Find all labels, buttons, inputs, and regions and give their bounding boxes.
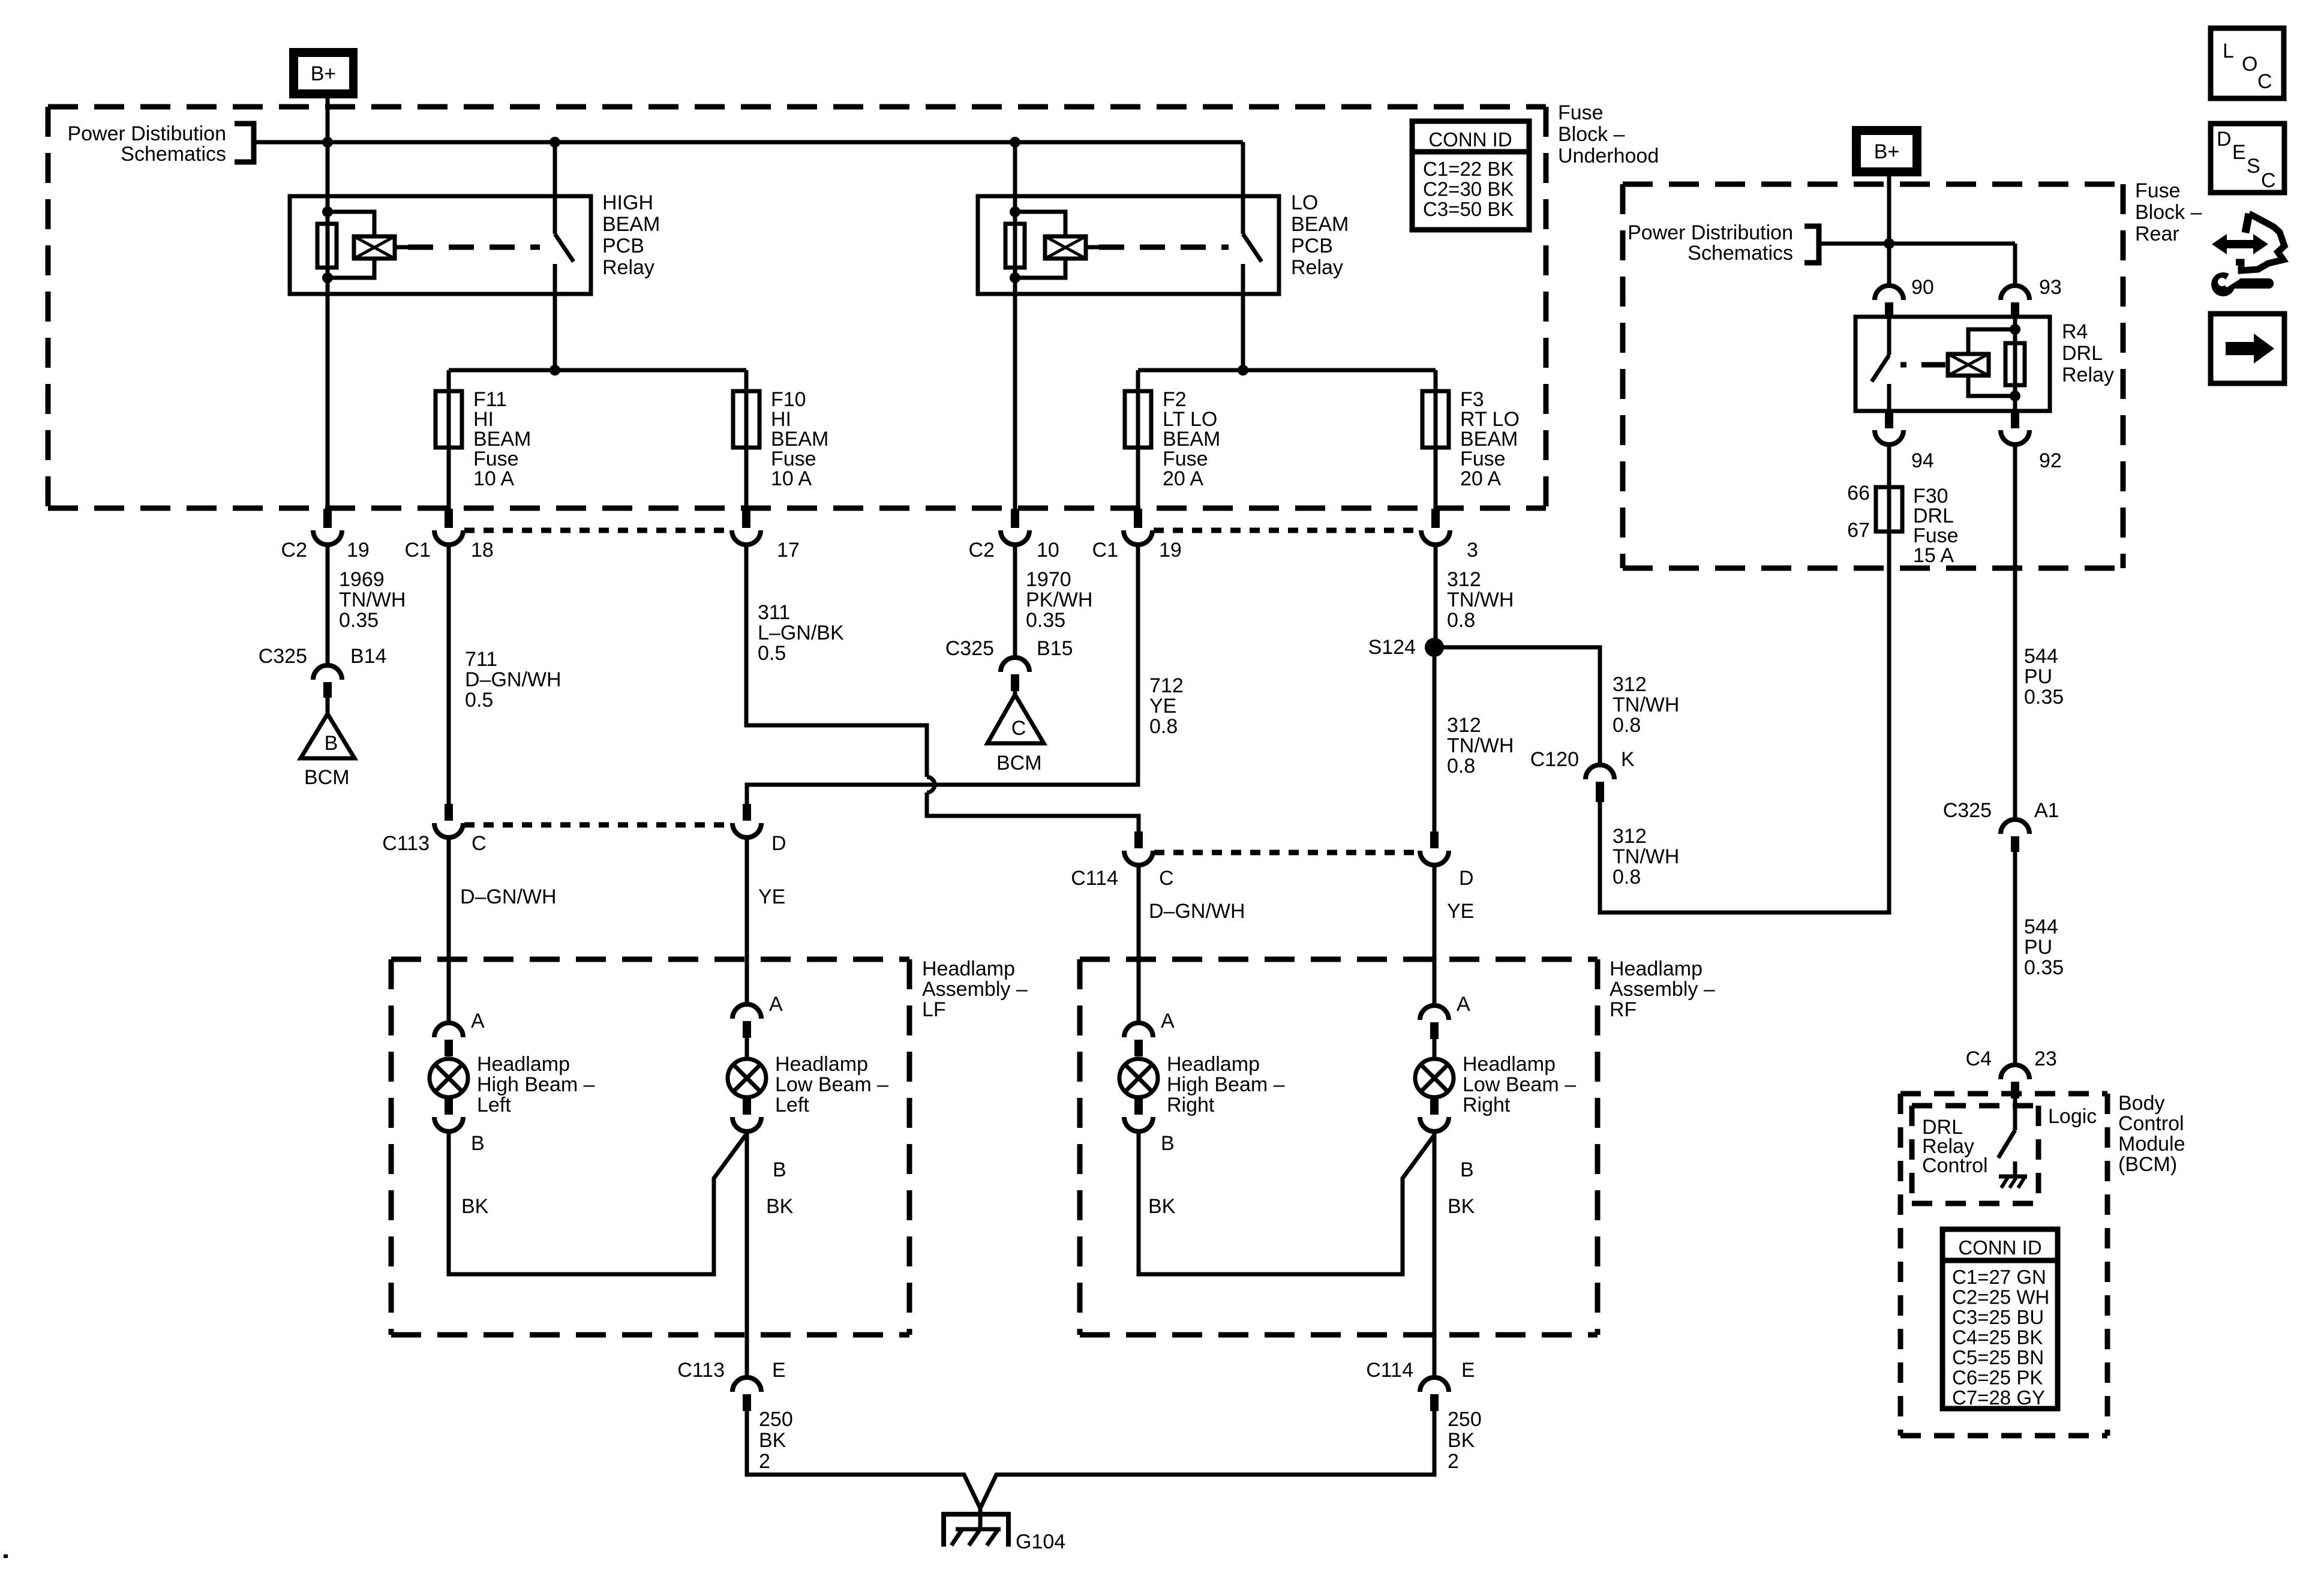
icon DESC box bbox=[2211, 124, 2284, 193]
icon LOC box bbox=[2211, 28, 2284, 98]
svg-text:20 A: 20 A bbox=[1460, 467, 1501, 490]
connector bridge dotted C113 C-D bbox=[464, 822, 732, 828]
svg-text:C114: C114 bbox=[1366, 1359, 1413, 1382]
svg-text:0.5: 0.5 bbox=[465, 689, 493, 712]
svg-text:1970: 1970 bbox=[1026, 568, 1071, 591]
wire through F11 bbox=[447, 391, 451, 448]
svg-text:D–GN/WH: D–GN/WH bbox=[460, 885, 557, 908]
svg-text:92: 92 bbox=[2039, 449, 2062, 472]
svg-text:A1: A1 bbox=[2034, 799, 2059, 822]
wire through F30 bbox=[1887, 487, 1891, 532]
svg-text:Relay: Relay bbox=[602, 256, 654, 279]
wire drop to F2 bbox=[1136, 370, 1140, 391]
wire HIGH relay switch to fuse bus bbox=[553, 264, 557, 370]
svg-text:YE: YE bbox=[1447, 900, 1474, 923]
connector lamp B low beam left bbox=[743, 1097, 751, 1115]
svg-text:C325: C325 bbox=[259, 645, 307, 668]
svg-text:0.5: 0.5 bbox=[758, 642, 786, 665]
svg-text:B: B bbox=[773, 1158, 786, 1181]
svg-text:A: A bbox=[471, 1010, 485, 1032]
svg-text:TN/WH: TN/WH bbox=[1447, 734, 1514, 757]
svg-text:0.8: 0.8 bbox=[1447, 609, 1475, 632]
node fuse bus LO junction bbox=[1238, 365, 1248, 376]
wire B+ rear down bbox=[1887, 176, 1891, 244]
wire pin 94 to F30 bbox=[1887, 445, 1891, 487]
node HIGH coil bottom bbox=[322, 272, 333, 283]
connector C325 B14 bbox=[313, 665, 342, 680]
body control module dashed enclosure bbox=[1900, 1091, 2107, 1097]
svg-text:TN/WH: TN/WH bbox=[1613, 694, 1679, 716]
relay HIGH switch bbox=[553, 196, 557, 234]
page corner mark bbox=[4, 1554, 8, 1558]
svg-text:C325: C325 bbox=[1943, 799, 1992, 822]
svg-text:C6=25 PK: C6=25 PK bbox=[1952, 1367, 2043, 1389]
svg-text:Power Distribution: Power Distribution bbox=[1628, 221, 1793, 244]
svg-text:A: A bbox=[1161, 1010, 1175, 1032]
svg-text:BK: BK bbox=[1448, 1195, 1475, 1218]
svg-text:C113: C113 bbox=[382, 832, 430, 855]
connector C1 pin 18 at fuse block bbox=[445, 509, 453, 528]
BCM internal ground symbol bbox=[1999, 1175, 2027, 1179]
DRL relay control dashed enclosure bbox=[1912, 1103, 2038, 1109]
svg-text:A: A bbox=[1457, 993, 1470, 1016]
svg-text:Relay: Relay bbox=[1291, 256, 1343, 279]
svg-text:TN/WH: TN/WH bbox=[1613, 845, 1679, 868]
svg-text:C2: C2 bbox=[281, 539, 307, 562]
wire fuse bus HIGH bbox=[449, 368, 746, 373]
connector pin 17 at fuse block bbox=[742, 509, 750, 528]
svg-text:10 A: 10 A bbox=[473, 467, 514, 490]
connector C113 pin C bbox=[445, 804, 453, 821]
wire F2 to C1-19 bbox=[1136, 448, 1140, 509]
wire C325-A1 to C4-23 bbox=[2013, 852, 2017, 1065]
svg-text:R4: R4 bbox=[2062, 320, 2088, 343]
wire C113-E to ground bbox=[747, 1411, 980, 1508]
wire fuse bus LO bbox=[1138, 368, 1436, 373]
svg-text:C2=25 WH: C2=25 WH bbox=[1952, 1286, 2049, 1308]
svg-text:Right: Right bbox=[1167, 1094, 1215, 1116]
wire 1969 TN/WH to C325-B14 bbox=[326, 542, 330, 665]
svg-text:17: 17 bbox=[777, 539, 800, 562]
svg-text:TN/WH: TN/WH bbox=[339, 589, 406, 611]
svg-text:Schematics: Schematics bbox=[121, 143, 226, 166]
wire low beam left to C113-E bbox=[745, 1131, 749, 1377]
fuse block rear dashed enclosure bbox=[1623, 182, 2123, 187]
svg-text:S: S bbox=[2247, 155, 2260, 178]
svg-text:D–GN/WH: D–GN/WH bbox=[465, 668, 562, 691]
svg-text:S124: S124 bbox=[1368, 636, 1416, 659]
node junction rear bus bbox=[1884, 238, 1894, 249]
svg-text:3: 3 bbox=[1467, 539, 1478, 562]
svg-text:544: 544 bbox=[2024, 645, 2058, 668]
svg-text:312: 312 bbox=[1613, 825, 1647, 848]
svg-text:BK: BK bbox=[1448, 1429, 1475, 1452]
svg-text:250: 250 bbox=[1448, 1408, 1482, 1431]
svg-text:B: B bbox=[1460, 1158, 1474, 1181]
wire C120 to F30 fuse run bbox=[1600, 532, 1889, 912]
node HIGH coil top bbox=[322, 206, 333, 217]
wire 1970 PK/WH to C325-B15 bbox=[1013, 542, 1017, 658]
relay R4 control dashed line bbox=[1900, 362, 1945, 368]
svg-text:67: 67 bbox=[1847, 519, 1870, 542]
svg-text:B: B bbox=[471, 1132, 485, 1155]
wire F10 to pin 17 bbox=[744, 448, 749, 509]
connector lamp A low beam right bbox=[1420, 1005, 1449, 1020]
wire power distribution bus rear bbox=[1819, 242, 2015, 246]
svg-text:E: E bbox=[772, 1359, 786, 1382]
wire 711 D-GN/WH F11 to C113-C bbox=[447, 542, 451, 804]
wire F11 to C1-18 bbox=[447, 448, 451, 509]
wire 311 lower run to C114-C bbox=[927, 792, 1139, 831]
wire B+ bus horizontal bbox=[254, 140, 1243, 145]
relay LO solenoid winding symbol bbox=[1045, 236, 1086, 259]
svg-text:B14: B14 bbox=[350, 645, 387, 668]
node R4 coil top bbox=[2010, 324, 2020, 335]
lamp headlamp low beam left bbox=[728, 1059, 766, 1097]
relay LO control dashed line bbox=[1086, 245, 1099, 250]
wire HIGH coil to C2-19 bbox=[326, 278, 330, 509]
svg-text:0.35: 0.35 bbox=[2024, 956, 2064, 979]
connector relay pin 90 bbox=[1875, 286, 1903, 300]
connector C325 A1 bbox=[2001, 819, 2029, 834]
connector relay pin 92 bbox=[2011, 411, 2019, 428]
wire 544 PU from pin 92 to C325-A1 bbox=[2013, 445, 2017, 819]
wire S124 branch to C120 bbox=[1434, 647, 1600, 765]
svg-text:B+: B+ bbox=[1874, 140, 1900, 163]
connector lamp B high beam left bbox=[445, 1097, 453, 1115]
svg-text:Underhood: Underhood bbox=[1558, 145, 1659, 167]
svg-text:LF: LF bbox=[922, 998, 946, 1021]
svg-text:Rear: Rear bbox=[2135, 223, 2179, 245]
svg-text:0.35: 0.35 bbox=[339, 609, 379, 632]
connector relay pin 93 bbox=[2001, 286, 2029, 300]
connector lamp B high beam right bbox=[1134, 1097, 1143, 1115]
svg-text:YE: YE bbox=[1149, 695, 1176, 718]
bracket for power distribution reference (left) bbox=[235, 124, 254, 162]
svg-text:BK: BK bbox=[461, 1195, 489, 1218]
wire B+ down to relay coil bbox=[326, 98, 330, 212]
svg-text:G104: G104 bbox=[1016, 1530, 1065, 1553]
connector lamp B low beam right bbox=[1430, 1097, 1439, 1115]
svg-text:Control: Control bbox=[2118, 1112, 2184, 1135]
svg-text:A: A bbox=[769, 993, 783, 1016]
svg-text:712: 712 bbox=[1149, 674, 1184, 697]
svg-text:LO: LO bbox=[1291, 191, 1318, 214]
svg-text:Left: Left bbox=[477, 1094, 511, 1116]
svg-text:PU: PU bbox=[2024, 936, 2052, 959]
svg-text:10 A: 10 A bbox=[771, 467, 812, 490]
svg-text:PK/WH: PK/WH bbox=[1026, 589, 1092, 611]
fuse F11 HI BEAM Fuse 10A bbox=[436, 391, 462, 448]
relay LO BEAM PCB Relay box bbox=[978, 196, 1279, 294]
relay HIGH control dashed line bbox=[395, 245, 408, 250]
BCM destination triangle C bbox=[987, 695, 1044, 743]
svg-text:C1: C1 bbox=[1092, 539, 1118, 562]
wire S124 down to C114-D bbox=[1433, 647, 1437, 831]
connector lamp A high beam left bbox=[434, 1023, 463, 1037]
svg-text:C3=25 BU: C3=25 BU bbox=[1952, 1306, 2044, 1328]
connector relay pin 94 bbox=[1885, 411, 1893, 428]
svg-text:C2: C2 bbox=[969, 539, 995, 562]
svg-text:Headlamp: Headlamp bbox=[775, 1053, 868, 1076]
svg-text:C4: C4 bbox=[1966, 1047, 1992, 1070]
svg-text:66: 66 bbox=[1847, 482, 1870, 505]
svg-text:C114: C114 bbox=[1071, 867, 1118, 890]
relay R4 coil resistor bbox=[2005, 343, 2025, 385]
wire bus corner down to LO relay switch bbox=[1241, 142, 1245, 196]
wire through F10 bbox=[744, 391, 749, 448]
svg-text:Headlamp: Headlamp bbox=[922, 957, 1015, 980]
svg-text:Logic: Logic bbox=[2048, 1105, 2097, 1128]
wire HIGH coil loop bbox=[328, 212, 374, 236]
relay LO switch bbox=[1241, 196, 1245, 234]
svg-text:L–GN/BK: L–GN/BK bbox=[758, 622, 844, 644]
svg-text:312: 312 bbox=[1447, 568, 1481, 591]
wire C114-D to low beam right lamp bbox=[1433, 866, 1437, 1005]
svg-text:Low Beam –: Low Beam – bbox=[1463, 1073, 1576, 1096]
svg-text:18: 18 bbox=[471, 539, 494, 562]
wire hop over YE wire bbox=[927, 777, 935, 792]
svg-text:Relay: Relay bbox=[2062, 364, 2114, 386]
svg-text:1969: 1969 bbox=[339, 568, 385, 591]
svg-text:High Beam –: High Beam – bbox=[477, 1073, 595, 1096]
wire B+ to pin 90 bbox=[1887, 244, 1891, 286]
B+ power symbol (left) bbox=[289, 48, 358, 98]
wire R4 coil loop bbox=[1968, 329, 2015, 354]
wire C114-C to high beam right lamp bbox=[1137, 866, 1141, 1023]
wire through HIGH coil bbox=[326, 212, 330, 278]
svg-text:Fuse: Fuse bbox=[1558, 101, 1604, 124]
svg-text:BCM: BCM bbox=[996, 752, 1042, 775]
svg-text:250: 250 bbox=[759, 1408, 793, 1431]
connector lamp A low beam left bbox=[732, 1004, 761, 1019]
svg-text:Block –: Block – bbox=[1558, 123, 1625, 146]
fuse F10 HI BEAM Fuse 10A bbox=[733, 391, 759, 448]
headlamp assembly LF dashed enclosure bbox=[391, 957, 909, 962]
fuse F3 RT LO BEAM Fuse 20A bbox=[1422, 391, 1449, 448]
svg-text:19: 19 bbox=[1159, 539, 1182, 562]
svg-text:DRL: DRL bbox=[2062, 342, 2103, 365]
relay HIGH BEAM PCB Relay box bbox=[290, 196, 591, 294]
connector pin 3 at fuse block bbox=[1431, 509, 1440, 528]
svg-text:C3=50 BK: C3=50 BK bbox=[1423, 198, 1514, 220]
svg-text:BCM: BCM bbox=[304, 766, 350, 789]
svg-text:HIGH: HIGH bbox=[602, 191, 653, 214]
connector C114 pin D bbox=[1430, 831, 1439, 848]
connector bridge dotted C1 19-3 bbox=[1154, 528, 1421, 533]
svg-text:BK: BK bbox=[759, 1429, 786, 1452]
wire A pin to low beam left lamp bbox=[745, 1038, 749, 1059]
svg-text:C: C bbox=[2257, 70, 2272, 93]
svg-text:D: D bbox=[771, 832, 786, 855]
svg-text:C: C bbox=[1159, 867, 1174, 890]
svg-text:711: 711 bbox=[465, 648, 497, 671]
svg-text:C5=25 BN: C5=25 BN bbox=[1952, 1346, 2044, 1368]
BCM logic switch bbox=[1998, 1130, 2015, 1158]
svg-text:0.8: 0.8 bbox=[1613, 714, 1641, 737]
relay R4 DRL Relay box bbox=[1855, 317, 2050, 411]
node LO coil bottom bbox=[1010, 272, 1020, 283]
svg-text:0.8: 0.8 bbox=[1613, 866, 1641, 888]
svg-text:B+: B+ bbox=[311, 62, 337, 85]
svg-text:BK: BK bbox=[766, 1195, 794, 1218]
relay LO coil resistor bbox=[1005, 224, 1025, 268]
connector C2 pin 19 at fuse block bbox=[323, 509, 332, 528]
svg-text:Low Beam –: Low Beam – bbox=[775, 1073, 888, 1096]
wire LO relay switch to fuse bus bbox=[1241, 264, 1245, 370]
svg-text:PCB: PCB bbox=[1291, 235, 1333, 257]
wire ground apex stub bbox=[978, 1508, 983, 1531]
svg-text:Assembly –: Assembly – bbox=[922, 978, 1028, 1001]
wire through F2 bbox=[1136, 391, 1140, 448]
svg-text:K: K bbox=[1621, 748, 1635, 771]
connector C4 pin 23 bbox=[2001, 1065, 2029, 1079]
svg-text:Body: Body bbox=[2118, 1092, 2165, 1115]
relay R4 solenoid winding symbol bbox=[1948, 354, 1989, 376]
svg-text:19: 19 bbox=[347, 539, 370, 562]
wire to BCM triangle C bbox=[1013, 691, 1017, 695]
svg-text:311: 311 bbox=[758, 601, 790, 624]
node LO coil top bbox=[1010, 206, 1020, 217]
relay HIGH solenoid winding symbol bbox=[354, 236, 395, 259]
svg-text:PCB: PCB bbox=[602, 235, 644, 257]
svg-text:2: 2 bbox=[1448, 1450, 1459, 1473]
svg-text:20 A: 20 A bbox=[1163, 467, 1203, 490]
svg-text:Left: Left bbox=[775, 1094, 809, 1116]
svg-text:544: 544 bbox=[2024, 915, 2058, 938]
BCM destination triangle B bbox=[301, 714, 355, 758]
wire rear bus corner to pin 93 bbox=[2013, 244, 2017, 286]
svg-text:O: O bbox=[2242, 53, 2257, 76]
wire C114-E to ground bbox=[980, 1411, 1434, 1508]
svg-text:BK: BK bbox=[1148, 1195, 1176, 1218]
lamp headlamp high beam right bbox=[1119, 1059, 1158, 1097]
node R4 coil bottom bbox=[2010, 391, 2020, 401]
svg-text:C: C bbox=[2261, 169, 2276, 192]
svg-text:93: 93 bbox=[2039, 276, 2062, 299]
svg-text:C1=22 BK: C1=22 BK bbox=[1423, 158, 1514, 180]
B+ power symbol (rear) bbox=[1852, 126, 1921, 176]
svg-text:Assembly –: Assembly – bbox=[1610, 978, 1715, 1001]
svg-text:High Beam –: High Beam – bbox=[1167, 1073, 1285, 1096]
icon hand with wrench bbox=[2245, 214, 2249, 233]
node fuse bus HIGH junction bbox=[550, 365, 560, 376]
node junction B+ bus / B+ wire bbox=[322, 137, 333, 148]
relay HIGH coil resistor bbox=[317, 224, 337, 268]
svg-text:B: B bbox=[1161, 1132, 1175, 1155]
svg-text:YE: YE bbox=[758, 885, 785, 908]
connector C113 pin E bbox=[732, 1377, 761, 1392]
svg-text:Power Distibution: Power Distibution bbox=[67, 122, 226, 145]
relay R4 switch bbox=[1887, 317, 1891, 355]
connector lamp A high beam right bbox=[1124, 1023, 1153, 1037]
wire high beam left ground run bbox=[449, 1131, 746, 1274]
svg-text:Schematics: Schematics bbox=[1688, 242, 1793, 265]
wire through R4 resistor bbox=[2013, 317, 2017, 411]
svg-text:Module: Module bbox=[2118, 1133, 2185, 1155]
connector bridge dotted C1 18-17 bbox=[464, 528, 732, 533]
svg-text:CONN ID: CONN ID bbox=[1428, 128, 1512, 151]
wire low beam right to C114-E bbox=[1433, 1131, 1437, 1377]
svg-text:C: C bbox=[1011, 717, 1026, 740]
svg-text:2: 2 bbox=[759, 1450, 770, 1473]
svg-text:Block –: Block – bbox=[2135, 201, 2202, 224]
svg-text:10: 10 bbox=[1037, 539, 1059, 562]
connector C2 pin 10 at fuse block bbox=[1011, 509, 1019, 528]
svg-text:C1: C1 bbox=[405, 539, 431, 562]
svg-text:Headlamp: Headlamp bbox=[1167, 1053, 1260, 1076]
wire LO coil to C2-10 bbox=[1013, 278, 1017, 509]
node junction bus to high beam relay switch bbox=[550, 137, 560, 148]
fuse F2 LT LO BEAM Fuse 20A bbox=[1125, 391, 1151, 448]
svg-text:E: E bbox=[2232, 141, 2246, 164]
wire C113-C to high beam left lamp bbox=[447, 839, 451, 1023]
svg-text:E: E bbox=[1461, 1359, 1475, 1382]
svg-text:15 A: 15 A bbox=[1913, 544, 1954, 567]
headlamp assembly RF dashed enclosure bbox=[1080, 957, 1598, 962]
svg-text:C120: C120 bbox=[1530, 748, 1579, 771]
svg-text:C1=27 GN: C1=27 GN bbox=[1952, 1266, 2046, 1288]
svg-text:D: D bbox=[2217, 128, 2232, 151]
svg-text:CONN ID: CONN ID bbox=[1958, 1236, 2041, 1259]
lamp headlamp low beam right bbox=[1415, 1059, 1454, 1097]
svg-text:B: B bbox=[325, 732, 338, 755]
wire to BCM triangle B bbox=[326, 698, 330, 714]
svg-text:C325: C325 bbox=[945, 637, 994, 660]
svg-text:Headlamp: Headlamp bbox=[1610, 957, 1703, 980]
CONN ID table underhood bbox=[1412, 121, 1529, 230]
svg-text:Control: Control bbox=[1922, 1154, 1988, 1177]
svg-text:BEAM: BEAM bbox=[602, 213, 660, 236]
wire high beam right ground run bbox=[1139, 1131, 1434, 1274]
wire 312 TN/WH from pin 3 to S124 bbox=[1434, 542, 1438, 647]
svg-text:D: D bbox=[1459, 867, 1474, 890]
fuse F30 DRL Fuse 15A bbox=[1876, 487, 1902, 532]
svg-text:PU: PU bbox=[2024, 665, 2052, 688]
svg-text:(BCM): (BCM) bbox=[2118, 1153, 2177, 1176]
wire drop to HIGH relay switch bbox=[553, 142, 557, 196]
svg-text:312: 312 bbox=[1613, 673, 1647, 696]
svg-text:90: 90 bbox=[1911, 276, 1934, 299]
wire LO coil loop bbox=[1015, 212, 1065, 236]
connector C325 B15 bbox=[1001, 658, 1029, 672]
svg-text:C: C bbox=[472, 832, 487, 855]
splice S124 bbox=[1425, 638, 1444, 657]
svg-text:BEAM: BEAM bbox=[1291, 213, 1349, 236]
wire drop to F11 bbox=[447, 370, 451, 391]
svg-text:TN/WH: TN/WH bbox=[1447, 589, 1514, 611]
wire A pin to low beam right lamp bbox=[1433, 1039, 1437, 1059]
svg-text:C7=28 GY: C7=28 GY bbox=[1952, 1386, 2045, 1409]
connector C1 pin 19 at fuse block bbox=[1134, 509, 1142, 528]
connector bridge dotted C114 C-D bbox=[1154, 850, 1421, 855]
svg-text:C2=30 BK: C2=30 BK bbox=[1423, 178, 1514, 200]
connector C120 pin K bbox=[1586, 765, 1614, 779]
wire drop to F10 bbox=[744, 370, 749, 391]
svg-text:0.8: 0.8 bbox=[1149, 715, 1178, 738]
svg-text:Fuse: Fuse bbox=[2135, 179, 2181, 202]
CONN ID table BCM bbox=[1942, 1229, 2058, 1409]
node junction bus to lo beam relay coil bbox=[1010, 137, 1020, 148]
connector C113 pin D bbox=[743, 804, 751, 821]
icon forward arrow box bbox=[2211, 314, 2284, 383]
svg-text:Headlamp: Headlamp bbox=[477, 1053, 570, 1076]
svg-text:94: 94 bbox=[1911, 449, 1934, 472]
wire through F3 bbox=[1434, 391, 1438, 448]
wire drop to F3 bbox=[1434, 370, 1438, 391]
wire C113-D to low beam left lamp bbox=[745, 839, 749, 1004]
svg-text:C113: C113 bbox=[677, 1359, 725, 1382]
